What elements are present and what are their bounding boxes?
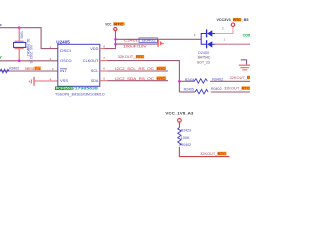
svg-text:RTC: RTC bbox=[233, 18, 241, 22]
wire OSCO net: left edge to pin2 bbox=[0, 60, 58, 62]
svg-text:100K: 100K bbox=[181, 136, 191, 140]
wire 32K row B with resistor R2405 bbox=[179, 91, 195, 93]
svg-text:R0402: R0402 bbox=[211, 87, 222, 91]
node junction crystal bottom bbox=[18, 60, 21, 63]
svg-text:Y: Y bbox=[0, 55, 2, 60]
svg-text:VCC_1V8_A3: VCC_1V8_A3 bbox=[165, 111, 193, 115]
diode top triangle bbox=[207, 30, 212, 37]
wire OSCI net: left edge to elbow into pin1 bbox=[0, 28, 58, 49]
wire VDD pin8 to VCC_RTC bbox=[100, 48, 105, 50]
svg-text:R: R bbox=[247, 76, 250, 80]
wire VCC_RTC rail to diode bbox=[116, 38, 202, 40]
svg-text:COIN: COIN bbox=[243, 34, 250, 38]
svg-text:VCC3V3_: VCC3V3_ bbox=[217, 18, 233, 22]
node junction 32K fanout bbox=[178, 80, 181, 83]
svg-text:B0402: B0402 bbox=[142, 39, 156, 43]
svg-text:PCF8563: PCF8563 bbox=[56, 86, 73, 90]
svg-text:_B5: _B5 bbox=[240, 18, 248, 22]
wire crystal bottom link bbox=[18, 49, 20, 61]
svg-text:RTC: RTC bbox=[218, 152, 227, 156]
diode bottom triangle bbox=[207, 41, 212, 47]
svg-text:TSSOP8_3M1E6X3M1O8M1O: TSSOP8_3M1E6X3M1O8M1O bbox=[55, 93, 105, 97]
svg-text:100uF/10V: 100uF/10V bbox=[123, 44, 147, 48]
node junction crystal top bbox=[18, 26, 21, 29]
diode top cathode bar bbox=[206, 29, 208, 37]
svg-text:/17985638: /17985638 bbox=[73, 86, 98, 90]
crystal Y2401 bbox=[14, 31, 26, 48]
power symbol VCC3V3 bbox=[231, 23, 234, 26]
wire SDA pin5 stub bbox=[100, 80, 108, 82]
svg-text:I2C2_SCL_RS_OC_: I2C2_SCL_RS_OC_ bbox=[115, 67, 157, 71]
wire power to resistor bbox=[178, 122, 180, 127]
svg-text:I2C2_SDA_RS_OC_: I2C2_SDA_RS_OC_ bbox=[115, 77, 157, 81]
diode bottom anode stub bbox=[212, 43, 215, 45]
svg-text:SOT_23: SOT_23 bbox=[197, 60, 210, 64]
svg-text:T_L: T_L bbox=[35, 67, 41, 71]
svg-text:RTC: RTC bbox=[157, 77, 166, 81]
capacitor C2401 plates bbox=[157, 40, 159, 47]
wire anode1 to coin net bbox=[215, 43, 250, 45]
resistor R2402 inline zigzag bbox=[0, 69, 9, 73]
svg-text:VDD: VDD bbox=[90, 46, 98, 51]
svg-text:R0402: R0402 bbox=[212, 77, 223, 81]
power symbol VCC_RTC bbox=[114, 27, 117, 30]
diode D2400 dual schottky bbox=[201, 29, 215, 48]
wire resistor to 32KOUT bbox=[179, 147, 229, 157]
svg-text:VSS: VSS bbox=[60, 78, 68, 83]
op-amp U2405 RTC chip box bbox=[58, 44, 100, 86]
svg-text:R0402: R0402 bbox=[181, 143, 192, 147]
wire crystal top link bbox=[18, 28, 20, 41]
svg-text:C2401: C2401 bbox=[124, 39, 138, 43]
node junction VCC rail bbox=[114, 38, 117, 41]
svg-text:R2405: R2405 bbox=[184, 87, 194, 91]
svg-text:U2405: U2405 bbox=[56, 39, 70, 44]
ground sideways at pin4 bbox=[29, 77, 34, 86]
svg-text:D2400: D2400 bbox=[198, 51, 209, 55]
svg-text:R2423: R2423 bbox=[181, 128, 192, 132]
diode top anode stub bbox=[212, 33, 215, 35]
svg-text:SCL: SCL bbox=[91, 68, 99, 73]
svg-text:R2402: R2402 bbox=[9, 67, 19, 71]
resistor R2423 vertical zigzag bbox=[178, 128, 181, 146]
svg-text:32KOUT_: 32KOUT_ bbox=[200, 152, 217, 156]
svg-text:RTC: RTC bbox=[157, 67, 166, 71]
svg-text:32KOUT_: 32KOUT_ bbox=[118, 55, 136, 59]
node junction cap lead bbox=[114, 43, 117, 46]
svg-text:32KOUT_: 32KOUT_ bbox=[224, 87, 241, 91]
wire 32K row A with resistor R2404 bbox=[179, 80, 194, 82]
svg-text:R2404: R2404 bbox=[185, 78, 195, 82]
wire VSS pin4 stub bbox=[34, 80, 57, 82]
wire MRESET_L net to pin3 bbox=[0, 70, 58, 72]
svg-text:RTC: RTC bbox=[136, 55, 144, 59]
svg-text:CLKOUT: CLKOUT bbox=[83, 58, 99, 63]
svg-text:RTC: RTC bbox=[242, 87, 250, 91]
svg-text:Y2401: Y2401 bbox=[19, 31, 23, 38]
svg-text:VCC_: VCC_ bbox=[105, 22, 113, 26]
wire anode2 to power bbox=[215, 26, 233, 33]
wire common cathode bracket bbox=[201, 34, 206, 45]
power symbol VCC_1V8 bbox=[178, 119, 182, 123]
part number highlight PCF8563 bbox=[55, 86, 73, 90]
svg-text:32KOUT_: 32KOUT_ bbox=[230, 76, 248, 80]
wire capacitor lower lead bbox=[116, 43, 159, 45]
svg-text:SDA: SDA bbox=[91, 78, 99, 83]
wire to ground top right bbox=[241, 60, 247, 65]
svg-text:BAT54C: BAT54C bbox=[198, 56, 211, 60]
wire CLKOUT pin7 bbox=[100, 60, 108, 62]
wire SCL pin6 stub bbox=[100, 70, 108, 72]
svg-text:OSCI: OSCI bbox=[60, 48, 71, 53]
svg-text:OSCO: OSCO bbox=[60, 58, 72, 63]
diode bottom cathode bar bbox=[206, 40, 208, 48]
svg-text:RTC: RTC bbox=[114, 22, 124, 26]
svg-text:MRESE: MRESE bbox=[25, 67, 35, 71]
ground top right bbox=[239, 65, 250, 70]
